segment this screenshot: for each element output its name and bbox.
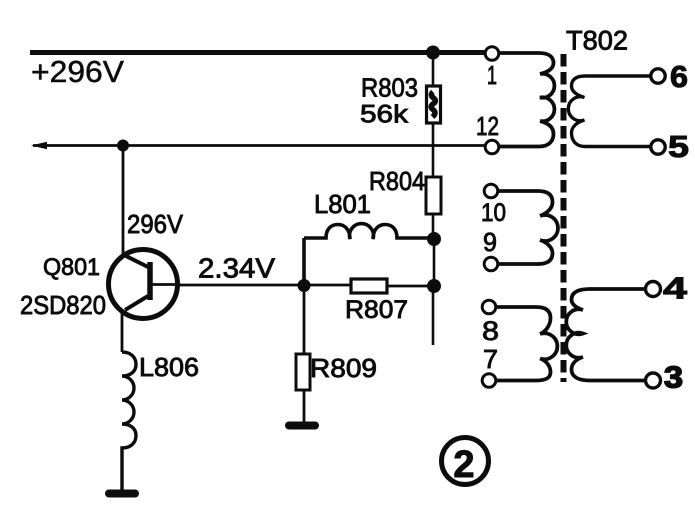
circled 2 page marker <box>442 438 489 485</box>
svg-text:5: 5 <box>668 129 689 164</box>
svg-text:L801: L801 <box>314 189 371 219</box>
pin 4 terminal <box>646 282 661 297</box>
secondary winding pins 6-5 <box>568 76 651 147</box>
svg-text:12: 12 <box>476 111 499 141</box>
pin 8 terminal <box>482 300 496 314</box>
svg-text:+296V: +296V <box>31 54 124 89</box>
resistor R809 <box>303 285 306 354</box>
svg-text:1: 1 <box>487 60 497 90</box>
pin 9 terminal <box>484 257 498 271</box>
svg-text:R804: R804 <box>369 166 425 196</box>
junction base / R809 <box>298 279 311 292</box>
svg-text:10: 10 <box>481 199 506 227</box>
junction top bus / R803 <box>426 46 440 60</box>
pin 6 terminal <box>651 69 665 83</box>
pin 3 terminal <box>646 373 661 388</box>
svg-text:Q801: Q801 <box>43 254 100 281</box>
svg-text:296V: 296V <box>127 209 184 239</box>
svg-text:6: 6 <box>670 59 688 94</box>
resistor R803 <box>427 86 441 123</box>
wire R803-R804 vertical <box>433 53 434 346</box>
svg-text:2.34V: 2.34V <box>198 253 275 284</box>
transformer core dashed line <box>561 54 567 382</box>
svg-text:4: 4 <box>663 271 688 306</box>
pin 10 terminal <box>484 184 498 198</box>
arrow left end of second bus <box>31 142 47 149</box>
inductor L806 <box>122 352 136 492</box>
primary winding pins 10-9 <box>498 191 558 264</box>
ground L806 <box>109 490 135 498</box>
junction L801 / R804 <box>427 232 441 246</box>
pin 7 terminal <box>482 374 496 388</box>
resistor R804 <box>426 177 441 214</box>
svg-text:9: 9 <box>483 227 497 257</box>
svg-text:R803: R803 <box>361 73 418 103</box>
svg-text:2SD820: 2SD820 <box>20 292 106 320</box>
svg-text:T802: T802 <box>566 26 628 56</box>
svg-text:R807: R807 <box>345 296 408 324</box>
wire second bus <box>33 144 485 147</box>
junction second bus / collector <box>117 140 129 152</box>
junction R807 right <box>427 279 441 293</box>
pin 1 terminal <box>485 47 499 61</box>
transistor Q801 <box>109 250 181 319</box>
resistor R807 <box>351 279 387 293</box>
ground R809 <box>289 422 315 430</box>
svg-text:56k: 56k <box>360 101 409 129</box>
svg-text:7: 7 <box>483 344 498 374</box>
svg-text:3: 3 <box>664 360 683 395</box>
svg-text:R809: R809 <box>310 353 377 383</box>
primary winding pins 8-7 <box>496 307 557 381</box>
svg-text:2: 2 <box>453 444 474 486</box>
primary winding pins 1-12 <box>499 53 554 147</box>
inductor L801 <box>304 224 428 285</box>
svg-text:8: 8 <box>482 316 499 346</box>
pin 12 terminal <box>485 140 499 154</box>
pin 5 terminal <box>651 140 665 154</box>
secondary winding pins 4-3 <box>566 289 646 381</box>
wire base to R807 row <box>178 284 351 287</box>
wire top +296V bus <box>30 50 487 55</box>
wire emitter <box>121 310 124 352</box>
wire collector vertical <box>122 146 125 257</box>
svg-text:L806: L806 <box>139 352 199 382</box>
